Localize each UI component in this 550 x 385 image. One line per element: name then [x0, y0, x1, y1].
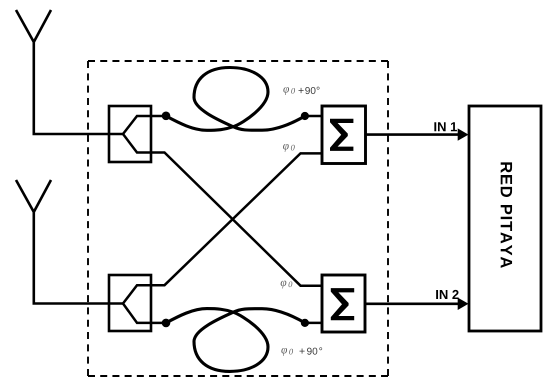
label IN 2 — [436, 290, 458, 299]
arrowhead IN1 — [458, 128, 469, 140]
coax delay loop L1 (phi0+90 deg path) — [166, 67, 305, 130]
coax delay loop L2 (phi0+90 deg path) — [166, 309, 305, 372]
wire ANT1 to splitter S1 input — [33, 133, 124, 136]
arrowhead IN2 — [458, 298, 469, 310]
dashed analog front-end boundary — [88, 61, 388, 376]
label RED PITAYA — [501, 162, 512, 268]
junction J4 — [301, 319, 309, 327]
wire U2 output to RED PITAYA IN2 — [365, 302, 459, 305]
wire S2 upper output to summer U1 (phi0 crossover) — [151, 153, 322, 285]
splitter S1 symbol — [123, 116, 151, 153]
antenna ANT1 — [16, 10, 51, 134]
label phi0+90deg (bottom loop) — [281, 347, 322, 356]
wire J2 to summer U1 upper input — [305, 115, 322, 118]
wire ANT2 to splitter S2 input — [33, 302, 124, 305]
summer U2 sigma — [331, 288, 354, 320]
summer U1 box — [322, 106, 366, 164]
label IN 1 — [434, 122, 457, 131]
label phi0 (upper crossover path) — [283, 144, 295, 152]
splitter S2 symbol — [123, 285, 151, 323]
RED PITAYA box — [469, 106, 541, 331]
wire S1 lower output to summer U2 (phi0 crossover) — [151, 153, 322, 286]
wire U1 output to RED PITAYA IN1 — [366, 133, 460, 136]
junction J2 — [301, 112, 309, 120]
label phi0+90deg (top loop) — [283, 87, 319, 95]
wire J4 to summer U2 lower input — [305, 322, 322, 325]
label phi0 (lower crossover path) — [281, 281, 293, 289]
junction J1 — [162, 112, 171, 121]
wire S2 lower output to junction J3 — [151, 322, 166, 325]
antenna ANT2 — [16, 180, 51, 304]
wire S1 upper output to junction J1 — [151, 115, 166, 118]
splitter S2 box — [109, 275, 151, 331]
summer U1 sigma — [330, 119, 353, 151]
junction J3 — [162, 319, 171, 328]
splitter S1 box — [109, 106, 151, 162]
summer U2 box — [322, 275, 365, 332]
